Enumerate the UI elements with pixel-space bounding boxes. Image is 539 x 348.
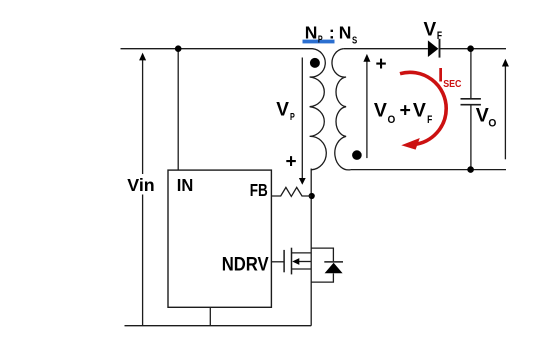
junction: input rail / IN drop <box>175 45 182 52</box>
arrow: Vp voltage (line) <box>301 58 303 179</box>
svg-text:V: V <box>424 20 437 41</box>
junction: output node bottom <box>467 166 474 173</box>
label: Vin <box>124 174 158 195</box>
arrow: Vo+Vf secondary voltage (head) <box>363 54 370 62</box>
diode D1 cathode bar <box>439 39 441 58</box>
junction: FB resistor / switch node <box>309 193 315 199</box>
junction: output node top <box>467 45 474 52</box>
svg-text:V: V <box>276 99 289 120</box>
arrow: Vin voltage (head) <box>139 53 146 61</box>
label: Vo + Vf secondary voltage <box>374 99 433 126</box>
svg-text:FB: FB <box>250 180 268 200</box>
wire: output cap top lead <box>470 49 472 98</box>
arrow: Vp voltage (head) <box>299 178 306 185</box>
label: Np : Ns turns ratio <box>305 23 358 47</box>
arrow: Vo+Vf secondary voltage (line) <box>366 61 368 159</box>
svg-text::: : <box>329 23 335 43</box>
label: Vp primary voltage <box>276 99 295 123</box>
wire: IN pin drop from input rail <box>177 49 179 170</box>
transistor Q1 gate lead from NDRV <box>271 261 284 263</box>
diode D2 body diode cathode bar <box>324 261 343 263</box>
transformer T1 primary polarity dot <box>310 58 320 68</box>
svg-text:P: P <box>318 35 323 46</box>
label: Vf diode forward voltage <box>424 20 443 42</box>
transistor Q1 source lead <box>292 268 312 270</box>
resistor RFB zigzag <box>271 187 311 196</box>
transistor Q1 gate bar <box>283 250 285 272</box>
wire: switch node vertical (primary bottom to source/ground) <box>310 169 312 326</box>
wire: ground rail bottom left <box>125 325 312 327</box>
capacitor C1 bottom plate <box>461 104 481 106</box>
arrow: Vo output voltage (head) <box>502 59 509 67</box>
arrow: Vo output voltage (line) <box>504 65 506 159</box>
wire: secondary top to diode anode <box>343 48 428 50</box>
transistor Q1 body arrow <box>292 258 299 265</box>
svg-text:O: O <box>388 114 396 126</box>
transformer T1 secondary polarity dot <box>352 150 362 160</box>
label: Isec secondary current (red) <box>438 66 461 90</box>
IC U1 (flyback controller) body <box>168 170 271 307</box>
svg-text:F: F <box>427 114 432 126</box>
wire: IC ground tap <box>209 307 211 325</box>
svg-text:S: S <box>352 36 357 47</box>
transistor Q1 channel bar <box>291 248 293 275</box>
wire: output cap bottom lead <box>470 105 472 169</box>
wire: body diode bottom return to source <box>311 273 333 282</box>
svg-text:SEC: SEC <box>443 79 461 90</box>
svg-text:Vin: Vin <box>127 175 154 195</box>
svg-text:V: V <box>476 104 489 126</box>
label: net Np underline (blue) <box>303 40 335 44</box>
transistor Q1 body lead <box>298 261 312 263</box>
wire: input rail top (Vin+ to primary) <box>121 48 313 50</box>
capacitor C1 top plate <box>461 98 481 100</box>
svg-text:V: V <box>413 99 426 121</box>
wire: drain jog to body diode top <box>311 248 333 261</box>
wire: output bottom rail <box>351 169 506 171</box>
svg-text:+: + <box>400 99 411 121</box>
transformer T1 secondary winding <box>332 49 351 170</box>
svg-text:NDRV: NDRV <box>222 255 269 276</box>
svg-text:IN: IN <box>177 175 194 195</box>
label: Vo output voltage <box>476 104 497 129</box>
diode D1 rectifier triangle <box>428 40 439 57</box>
arrow: Isec current loop (red arc) <box>400 72 446 144</box>
svg-text:N: N <box>339 23 352 43</box>
arrow: Vin voltage (line) <box>142 59 144 326</box>
transformer T1 primary winding <box>310 49 327 170</box>
svg-text:N: N <box>305 23 318 43</box>
svg-text:V: V <box>374 99 387 121</box>
transistor Q1 drain lead <box>292 252 312 254</box>
svg-text:+: + <box>286 152 297 173</box>
svg-text:P: P <box>290 112 295 123</box>
svg-text:F: F <box>437 30 442 42</box>
arrow: Isec current loop (red head) <box>401 138 420 150</box>
diode D2 body diode triangle <box>325 263 343 273</box>
svg-text:+: + <box>376 54 387 75</box>
wire: diode cathode to output node <box>440 48 506 50</box>
svg-text:O: O <box>488 117 496 129</box>
